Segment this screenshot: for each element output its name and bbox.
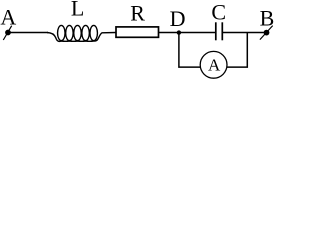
svg-text:C: C xyxy=(211,0,226,25)
wire resistor to capacitor xyxy=(159,32,216,34)
svg-text:A: A xyxy=(0,5,16,30)
terminal B xyxy=(260,26,273,40)
svg-text:L: L xyxy=(71,0,84,21)
inductor L xyxy=(47,25,116,41)
wire ammeter to B riser xyxy=(227,33,248,68)
svg-text:D: D xyxy=(170,6,186,31)
ammeter A xyxy=(200,51,227,78)
resistor R xyxy=(116,27,159,37)
wire capacitor to B xyxy=(223,32,267,34)
node D junction xyxy=(177,30,181,34)
capacitor C xyxy=(216,22,223,40)
svg-text:B: B xyxy=(260,6,275,31)
wire A to inductor xyxy=(8,32,48,34)
terminal A xyxy=(3,26,11,40)
svg-text:R: R xyxy=(130,0,145,25)
svg-text:A: A xyxy=(208,56,221,75)
wire D down to bottom branch xyxy=(179,33,201,68)
